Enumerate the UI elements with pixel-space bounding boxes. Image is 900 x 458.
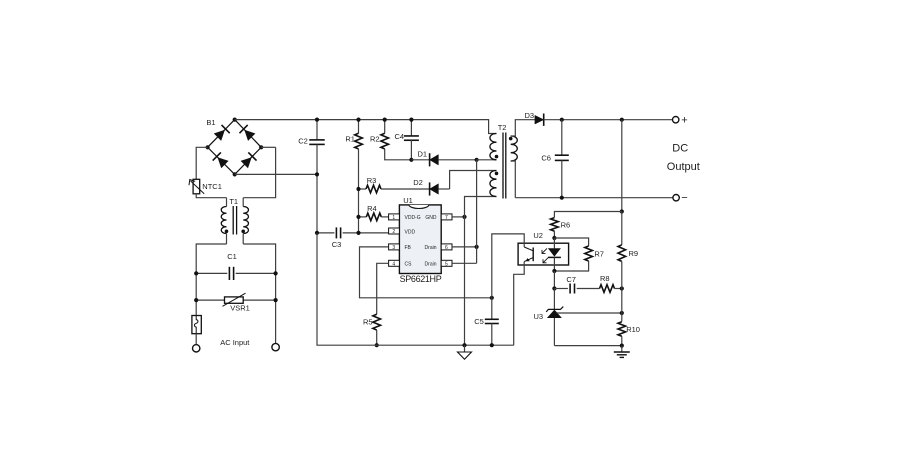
junction GND node [462, 215, 466, 219]
junction C7 left node [552, 286, 556, 290]
junction C1 right [274, 271, 278, 275]
svg-text:VDD: VDD [405, 229, 416, 235]
svg-text:R2: R2 [370, 135, 380, 144]
diode D3 [535, 114, 562, 126]
junction drain node [475, 245, 479, 249]
label R10 [626, 325, 640, 334]
svg-text:U3: U3 [534, 312, 544, 321]
junction B1 top vertex [233, 118, 237, 122]
svg-text:C3: C3 [332, 240, 342, 249]
junction B1 right vertex [259, 145, 263, 149]
junction B1 left vertex [206, 145, 210, 149]
pin 5 Drain [425, 260, 452, 267]
wire secondary ground rail [554, 345, 621, 347]
transformer T2 core [503, 133, 506, 199]
svg-text:R10: R10 [626, 325, 640, 334]
svg-text:6: 6 [445, 245, 448, 251]
svg-text:+: + [681, 115, 687, 127]
phase dot T2 primary [495, 155, 499, 159]
ground primary (triangle) [458, 345, 472, 359]
wire D2 to auxiliary winding top [450, 171, 497, 190]
wire output sense column [621, 120, 623, 212]
svg-text:U1: U1 [403, 196, 413, 205]
pin 2 VDD [389, 228, 416, 235]
svg-text:R9: R9 [629, 249, 639, 258]
junction C4 bottom snubber node [409, 158, 413, 162]
junction R5 bottom [375, 343, 379, 347]
diode D1 [411, 153, 476, 166]
svg-text:B1: B1 [206, 118, 215, 127]
transformer T2 auxiliary winding [490, 171, 497, 197]
junction C5 bottom [490, 343, 494, 347]
svg-text:R3: R3 [367, 176, 377, 185]
label DC Output [667, 143, 700, 173]
wire top rail (rectified +) to T2 primary [235, 120, 497, 134]
AC input terminal left [193, 345, 200, 352]
svg-text:−: − [681, 192, 687, 204]
capacitor C7 [554, 284, 599, 294]
svg-text:T2: T2 [498, 123, 507, 132]
label B1 [206, 118, 215, 127]
svg-text:Output: Output [667, 161, 700, 173]
junction R6 bottom / LED anode [552, 236, 556, 240]
svg-text:CS: CS [405, 262, 413, 268]
label AC Input [220, 338, 250, 347]
junction C6 top [560, 118, 564, 122]
label D2 [413, 178, 423, 187]
junction C2 mid [315, 172, 319, 176]
junction R8 right [620, 286, 624, 290]
svg-text:AC Input: AC Input [220, 338, 250, 347]
junction R3 left [356, 187, 360, 191]
resistor R5 [373, 263, 389, 345]
label R6 [561, 220, 571, 229]
wire output plus rail [562, 119, 673, 121]
wire U2 emitter to ground rail [514, 262, 525, 346]
phase dot T2 secondary [509, 137, 513, 141]
resistor R2 [381, 120, 411, 160]
resistor R7 [554, 238, 592, 271]
label T1 [229, 197, 238, 206]
transformer T2 secondary winding [511, 136, 518, 161]
label R9 [629, 249, 639, 258]
svg-text:T1: T1 [229, 197, 238, 206]
svg-text:C1: C1 [227, 252, 237, 261]
wire pin7 GND to ground column [452, 216, 465, 218]
label U3 [534, 312, 544, 321]
pin 4 CS [389, 260, 413, 267]
svg-text:FB: FB [405, 245, 412, 251]
capacitor C3 [317, 227, 389, 238]
label D3 [525, 111, 535, 120]
svg-text:U2: U2 [533, 231, 543, 240]
svg-text:C6: C6 [541, 153, 551, 162]
pin 1 VDD-G [389, 214, 421, 221]
label C7 [566, 275, 576, 284]
diode D2 [430, 182, 450, 195]
wire output minus rail [515, 197, 673, 199]
svg-text:5: 5 [445, 261, 448, 267]
svg-text:4: 4 [392, 261, 395, 267]
label VSR1 [230, 304, 250, 313]
svg-text:DC: DC [672, 143, 688, 155]
ground secondary (earth) [614, 346, 630, 358]
wire pin5 Drain to drain column [452, 262, 477, 264]
fuse F1 [192, 316, 201, 345]
label SP6621HP [400, 274, 442, 284]
optocoupler U2 [518, 238, 569, 271]
phase dot T2 auxiliary [495, 172, 499, 176]
label NTC1 [202, 182, 222, 191]
output terminal plus [673, 117, 679, 123]
capacitor C4 [404, 120, 419, 160]
junction C4 top [409, 118, 413, 122]
junction R4 left [356, 215, 360, 219]
wire primary winding bottom [477, 159, 497, 161]
svg-text:C5: C5 [474, 317, 484, 326]
varistor VSR1 [196, 293, 275, 306]
junction R2 top [383, 118, 387, 122]
label D1 [418, 149, 428, 158]
resistor R1 [355, 120, 363, 233]
pin 7 GND [425, 214, 452, 221]
svg-text:NTC1: NTC1 [202, 182, 222, 191]
svg-text:GND: GND [425, 215, 437, 221]
svg-text:R4: R4 [367, 204, 377, 213]
svg-text:D2: D2 [413, 178, 423, 187]
svg-text:Drain: Drain [425, 262, 437, 268]
op-amp U1 SP6621HP controller IC body [399, 205, 441, 274]
resistor R4 [359, 213, 389, 221]
svg-text:R6: R6 [561, 220, 571, 229]
junction D1 anode node (primary bottom) [475, 158, 479, 162]
pin 6 Drain [425, 244, 452, 251]
junction FB/C5 node [490, 296, 494, 300]
svg-text:C4: C4 [395, 132, 405, 141]
wire T1 right bottom down right leg [243, 244, 275, 343]
wire FB pin loop to optocoupler node [360, 247, 492, 298]
label U2 [533, 231, 543, 240]
wire B1 left vertex to NTC1 [196, 147, 207, 179]
label C1 [227, 252, 237, 261]
label minus sign [681, 192, 687, 204]
capacitor C1 [196, 267, 275, 280]
capacitor C2 [309, 120, 325, 233]
label R3 [367, 176, 377, 185]
common-mode choke T1 [221, 198, 248, 244]
wire T1 left bottom down left leg [196, 244, 226, 316]
svg-text:3: 3 [392, 245, 395, 251]
junction C2 top [315, 118, 319, 122]
wire U3 reference to divider node [557, 312, 622, 314]
svg-text:7: 7 [445, 215, 448, 221]
wire R9 column between nodes [621, 289, 623, 314]
junction LED cathode / R7 bottom [552, 269, 556, 273]
wire secondary top to D3 [511, 120, 535, 136]
svg-text:1: 1 [392, 215, 395, 221]
svg-text:C2: C2 [298, 137, 308, 146]
junction C6 bottom [560, 196, 564, 200]
label R2 [370, 135, 380, 144]
svg-text:R5: R5 [363, 318, 373, 327]
phase dot T1 right [241, 230, 245, 234]
svg-text:D1: D1 [418, 149, 428, 158]
svg-text:VSR1: VSR1 [230, 304, 250, 313]
phase dot T1 left [225, 230, 229, 234]
svg-text:R8: R8 [600, 274, 610, 283]
junction C3 left [315, 231, 319, 235]
bridge rectifier B1 [208, 120, 262, 175]
junction VSR1 left [194, 298, 198, 302]
label U1 [403, 196, 413, 205]
wire secondary bottom to output minus rail [511, 161, 516, 198]
svg-text:D3: D3 [525, 111, 535, 120]
junction R1 top [356, 118, 360, 122]
svg-text:SP6621HP: SP6621HP [400, 274, 442, 284]
junction VSR1 right [274, 298, 278, 302]
junction C1 left [194, 271, 198, 275]
wire primary ground bottom rail [317, 233, 514, 345]
resistor R9 [618, 212, 626, 289]
wire B1 bottom to C2 column [235, 173, 317, 175]
wire U2 collector to FB node [492, 234, 524, 298]
label R4 [367, 204, 377, 213]
capacitor C6 [555, 120, 569, 198]
wire B1 right vertex to T1 right top [243, 147, 275, 197]
svg-text:Drain: Drain [425, 245, 437, 251]
thermistor NTC1 [189, 179, 204, 194]
label C5 [474, 317, 484, 326]
junction ground rail aux column [462, 343, 466, 347]
resistor R6 [551, 212, 622, 239]
junction B1 bottom vertex [233, 172, 237, 176]
wire LED cathode to C7 node [553, 271, 555, 289]
wire pin6 Drain to drain column [452, 246, 477, 248]
transformer T2 primary winding [490, 134, 497, 160]
AC input terminal right [272, 343, 279, 350]
label R8 [600, 274, 610, 283]
label R5 [363, 318, 373, 327]
shunt regulator U3 [546, 289, 563, 346]
junction secondary ground [620, 344, 624, 348]
resistor R3 [359, 185, 430, 193]
svg-text:R1: R1 [345, 135, 355, 144]
label R1 [345, 135, 355, 144]
svg-text:R7: R7 [594, 249, 604, 258]
wire NTC1 to T1 left top [196, 194, 226, 198]
junction output sense column top [620, 118, 624, 122]
wire aux winding bottom to ground rail [465, 197, 497, 346]
label C6 [541, 153, 551, 162]
label C3 [332, 240, 342, 249]
label C4 [395, 132, 405, 141]
wire drain column [476, 160, 478, 263]
pin 3 FB [389, 244, 412, 251]
junction divider node [620, 311, 624, 315]
junction R6 tap node [620, 209, 624, 213]
label R7 [594, 249, 604, 258]
label plus sign [681, 115, 687, 127]
junction C3 right (VDD node) [356, 231, 360, 235]
label T2 [498, 123, 507, 132]
svg-text:2: 2 [392, 229, 395, 235]
resistor R10 [618, 313, 626, 346]
output terminal minus [673, 195, 679, 201]
svg-text:VDD-G: VDD-G [405, 215, 421, 221]
svg-text:C7: C7 [566, 275, 576, 284]
label C2 [298, 137, 308, 146]
capacitor C5 [485, 298, 499, 345]
resistor R8 [600, 285, 622, 293]
